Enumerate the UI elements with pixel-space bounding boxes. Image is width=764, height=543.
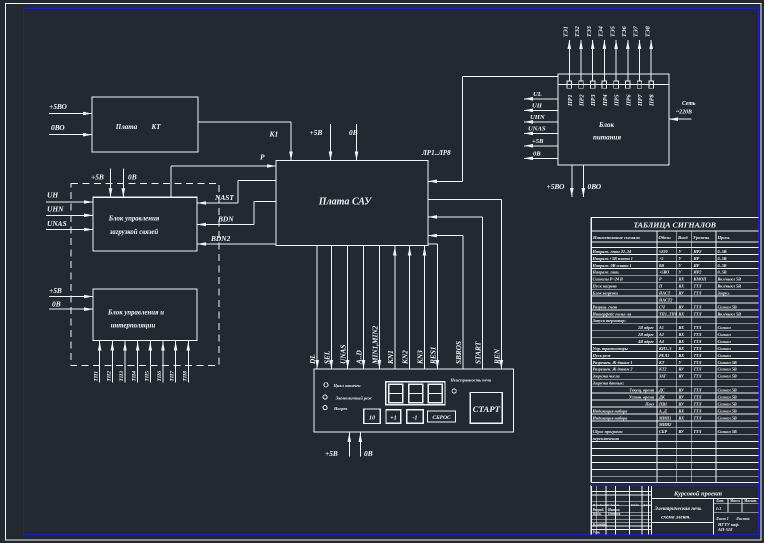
fuse ПР5 — [614, 81, 621, 107]
svg-text:Пров.: Пров. — [592, 512, 602, 516]
svg-text:Сигнал 5В: Сигнал 5В — [718, 374, 737, 379]
svg-text:MIN1,MIN2: MIN1,MIN2 — [370, 325, 379, 365]
svg-text:UNAS: UNAS — [339, 345, 348, 364]
svg-text:ТТЛ: ТТЛ — [694, 325, 702, 330]
label +5В (блок управления) — [91, 173, 104, 182]
svg-text:загрузкой связей: загрузкой связей — [109, 229, 159, 236]
svg-text:Вход: Вход — [677, 235, 688, 240]
svg-text:ТТЛ: ТТЛ — [694, 291, 702, 296]
wire BDN2 from САУ to блок управления загрузкой — [197, 242, 276, 246]
label К1 — [269, 130, 279, 139]
svg-text:0В: 0В — [52, 300, 61, 309]
label 0В (САУ) — [349, 128, 358, 137]
svg-text:СБРОС: СБРОС — [432, 415, 451, 421]
svg-text:ТТЛ: ТТЛ — [694, 284, 702, 289]
svg-text:СБР: СБР — [659, 429, 667, 434]
wire K1 from Плата КТ to Плата САУ — [198, 122, 293, 161]
svg-text:ТТЛ: ТТЛ — [694, 408, 702, 413]
svg-text:0..5В: 0..5В — [718, 270, 727, 275]
svg-text:НАСТ: НАСТ — [658, 291, 671, 296]
svg-text:Вкл/выкл 5В: Вкл/выкл 5В — [717, 311, 742, 316]
svg-text:ВХ: ВХ — [678, 284, 685, 289]
wire ТЭ8 output — [645, 26, 653, 81]
label UNAS — [47, 219, 67, 228]
svg-text:+5В: +5В — [310, 128, 323, 137]
svg-text:Листов: Листов — [735, 516, 750, 521]
svg-text:ДК: ДК — [658, 394, 666, 399]
stub UNAS (блок питания) — [524, 126, 558, 136]
label +5В (блок интерполяции) — [49, 286, 62, 295]
svg-text:ПР1: ПР1 — [568, 94, 574, 107]
fuse ПР2 — [579, 81, 586, 107]
svg-text:Индикация набора: Индикация набора — [592, 408, 628, 413]
svg-text:интерполяции: интерполяции — [111, 323, 156, 330]
label Р — [260, 153, 265, 162]
svg-text:BDN2: BDN2 — [210, 234, 231, 243]
svg-text:Р: Р — [659, 277, 662, 282]
svg-text:0ВО: 0ВО — [51, 123, 65, 132]
svg-text:ТП5: ТП5 — [144, 371, 150, 382]
svg-text:ТЭ1: ТЭ1 — [564, 26, 570, 37]
svg-text:Загрузка данных:: Загрузка данных: — [592, 381, 625, 386]
wire ТЭ3 output — [587, 26, 595, 81]
stub UH (блок питания) — [524, 103, 558, 113]
svg-text:ТТЛ: ТТЛ — [694, 360, 702, 365]
svg-text:1:1: 1:1 — [716, 506, 721, 511]
svg-text:Разраб.: Разраб. — [593, 508, 605, 512]
wire UH into блок управления — [46, 200, 93, 204]
svg-text:~220В: ~220В — [676, 110, 692, 116]
svg-text:Курсовой проект: Курсовой проект — [673, 490, 722, 497]
label +5ВО input — [49, 102, 67, 111]
svg-text:К1: К1 — [269, 130, 279, 139]
svg-text:Неисправность печи: Неисправность печи — [450, 378, 492, 383]
svg-text:SBROS: SBROS — [454, 341, 463, 364]
label 0В (блок интерполяции) — [52, 300, 61, 309]
svg-text:ВХ: ВХ — [678, 353, 685, 358]
wire 0В into блок управления top — [122, 169, 126, 198]
stub UL (блок питания) — [524, 91, 558, 101]
button -1 — [407, 410, 424, 423]
svg-text:Текущ. время: Текущ. время — [629, 388, 654, 393]
svg-text:Электрическая печь: Электрическая печь — [655, 506, 703, 512]
svg-text:ПР2: ПР2 — [580, 94, 586, 107]
svg-text:NAST: NAST — [214, 193, 234, 202]
svg-text:ТТЛ: ТТЛ — [694, 401, 702, 406]
wire 0В into Плата САУ — [355, 124, 359, 161]
svg-text:Сброс программ: Сброс программ — [593, 429, 623, 434]
svg-text:ТЭ8: ТЭ8 — [645, 26, 651, 37]
wire ТЭ5 output — [610, 26, 618, 81]
svg-text:0..5В: 0..5В — [718, 263, 727, 268]
svg-text:0В: 0В — [659, 263, 664, 268]
svg-text:ВХ: ВХ — [678, 346, 685, 351]
svg-text:КТ2: КТ2 — [658, 367, 667, 372]
wire ТП8 thermocouple input — [182, 341, 190, 383]
svg-text:ВУ: ВУ — [678, 394, 685, 399]
indicator Нагрев — [323, 406, 347, 412]
svg-text:0В: 0В — [128, 173, 137, 182]
svg-text:Напряж. сети 22..24: Напряж. сети 22..24 — [592, 249, 632, 254]
svg-text:10: 10 — [369, 415, 375, 422]
wire 0ВО into Плата КТ — [49, 133, 92, 137]
svg-text:ТП4: ТП4 — [132, 371, 138, 382]
svg-text:А4: А4 — [658, 339, 664, 344]
label +5В (САУ) — [310, 128, 323, 137]
svg-text:Обозн: Обозн — [659, 235, 672, 240]
wire DL — [308, 246, 319, 370]
svg-text:+5В: +5В — [49, 286, 62, 295]
svg-text:-1: -1 — [412, 414, 417, 421]
svg-text:Плата: Плата — [115, 123, 138, 131]
svg-text:КН1..3: КН1..3 — [658, 346, 671, 351]
svg-text:Сигналы Р=24 В: Сигналы Р=24 В — [593, 277, 623, 282]
svg-text:REN: REN — [492, 348, 501, 365]
svg-text:ТЭ7: ТЭ7 — [634, 25, 640, 37]
svg-text:П: П — [658, 284, 663, 289]
svg-text:ТТЛ: ТТЛ — [694, 394, 702, 399]
svg-text:ПР5: ПР5 — [615, 94, 621, 107]
svg-text:ИР2: ИР2 — [693, 270, 702, 275]
label UH — [47, 191, 58, 200]
label NAST — [214, 193, 234, 202]
svg-text:ВУ: ВУ — [678, 388, 685, 393]
svg-text:+5ВО: +5ВО — [49, 102, 67, 111]
svg-text:Загрузка числа: Загрузка числа — [592, 374, 620, 379]
svg-text:1Я адрес: 1Я адрес — [638, 325, 654, 330]
wire ТЭ4 output — [599, 26, 607, 81]
svg-text:схема элект.: схема элект. — [661, 515, 690, 521]
svg-text:+5ВО: +5ВО — [659, 270, 669, 275]
label 0В (пульт) — [364, 449, 373, 458]
label +5ВО — [547, 182, 565, 191]
svg-text:Иванов: Иванов — [607, 508, 620, 512]
block: Плата САУ — [276, 161, 428, 246]
svg-text:UHN: UHN — [47, 205, 64, 214]
svg-text:ВУ: ВУ — [678, 429, 685, 434]
svg-text:РЕЛ1: РЕЛ1 — [659, 353, 669, 358]
svg-text:Разрешен. Ж-динам 2: Разрешен. Ж-динам 2 — [593, 367, 633, 372]
svg-text:ПР6: ПР6 — [626, 94, 632, 107]
svg-text:Сигнал 5В: Сигнал 5В — [718, 388, 737, 393]
svg-text:СЧ: СЧ — [659, 304, 666, 309]
svg-text:UNAS: UNAS — [47, 219, 67, 228]
wire ЛР1..ЛР8 bus from блок питания to САУ — [428, 77, 558, 184]
stub UHN (блок питания) — [524, 114, 558, 124]
svg-text:Блок управления: Блок управления — [108, 216, 160, 223]
svg-text:Запуск термопар:: Запуск термопар: — [592, 318, 627, 323]
svg-text:Пауз: Пауз — [644, 401, 654, 406]
svg-text:+5В: +5В — [532, 138, 544, 145]
svg-text:ТТЛ: ТТЛ — [694, 367, 702, 372]
svg-text:Сигнал 5В: Сигнал 5В — [718, 360, 737, 365]
button 10 — [364, 409, 381, 424]
fuse ПР1 — [567, 81, 574, 107]
svg-text:Сигнал 5В: Сигнал 5В — [718, 304, 737, 309]
svg-text:Сигнал 5В: Сигнал 5В — [718, 394, 737, 399]
svg-text:4Я адрес: 4Я адрес — [637, 339, 654, 344]
button СБРОС — [428, 411, 456, 422]
svg-text:ИР: ИР — [693, 263, 700, 268]
svg-text:Дата: Дата — [642, 503, 652, 507]
wire +5В into Плата САУ — [329, 124, 333, 161]
svg-text:Сигнал 5В: Сигнал 5В — [718, 408, 737, 413]
wire NAST from САУ to блок управления загрузкой — [197, 181, 276, 205]
svg-text:питания: питания — [593, 133, 622, 141]
wire ТП7 thermocouple input — [170, 341, 178, 383]
fuse ПР4 — [602, 81, 609, 107]
svg-text:ТЭ3: ТЭ3 — [587, 26, 593, 37]
svg-text:UL: UL — [533, 91, 542, 98]
svg-text:Плата САУ: Плата САУ — [318, 197, 373, 208]
label 0ВО — [588, 182, 602, 191]
label Сеть ~220В — [676, 101, 696, 116]
wire ТП3 thermocouple input — [119, 341, 127, 383]
indicator Экономичный режим — [323, 395, 373, 401]
svg-text:ТЭ4: ТЭ4 — [599, 26, 605, 37]
svg-text:ТТЛ: ТТЛ — [694, 339, 702, 344]
svg-text:А1: А1 — [658, 325, 664, 330]
svg-text:Разрешен. Ж-динам 1: Разрешен. Ж-динам 1 — [593, 360, 633, 365]
svg-text:Сигнал 5В: Сигнал 5В — [718, 401, 737, 406]
svg-text:KN2: KN2 — [401, 350, 410, 365]
svg-text:ТАБЛИЦА СИГНАЛОВ: ТАБЛИЦА СИГНАЛОВ — [634, 221, 716, 230]
block: пульт управления — [314, 369, 514, 432]
svg-text:Масшт.: Масшт. — [743, 499, 757, 503]
svg-text:Устан. время: Устан. время — [629, 394, 655, 399]
svg-text:Интерфейс польз-ля: Интерфейс польз-ля — [592, 311, 632, 316]
label +5В (пульт) — [325, 449, 338, 458]
svg-text:Сигнал: Сигнал — [718, 332, 732, 337]
svg-text:ПР8: ПР8 — [650, 94, 656, 107]
svg-text:Напряж. пит.: Напряж. пит. — [592, 270, 620, 275]
svg-text:А2: А2 — [658, 332, 664, 337]
svg-text:ТП8: ТП8 — [182, 371, 188, 382]
wire ТЭ6 output — [622, 25, 630, 81]
svg-text:ТТЛ: ТТЛ — [694, 353, 702, 358]
svg-text:BDN: BDN — [217, 215, 234, 224]
svg-text:ВХ: ВХ — [678, 332, 685, 337]
svg-text:Сигнал: Сигнал — [718, 353, 732, 358]
wire 0ВО output of блок питания — [582, 165, 586, 197]
svg-text:Блок управления и: Блок управления и — [107, 310, 164, 317]
wire +5В into блок управления top — [109, 169, 113, 198]
svg-text:Сигнал: Сигнал — [718, 325, 732, 330]
button +1 — [386, 410, 401, 423]
wire MIN1,MIN2 — [370, 246, 381, 370]
svg-text:UHN: UHN — [530, 114, 545, 121]
svg-text:ПР3: ПР3 — [591, 94, 597, 107]
svg-text:КМОП: КМОП — [693, 277, 708, 282]
svg-text:Пуск нагрева: Пуск нагрева — [592, 284, 617, 289]
block: Блок питания — [558, 74, 669, 165]
svg-text:0ВО: 0ВО — [588, 182, 602, 191]
svg-text:UH: UH — [532, 103, 543, 110]
svg-text:ТП6: ТП6 — [157, 371, 163, 382]
svg-text:ТП2: ТП2 — [106, 371, 112, 382]
svg-text:Прим.: Прим. — [717, 235, 731, 240]
wire KN1 — [386, 246, 397, 370]
svg-text:ТТЛ: ТТЛ — [694, 332, 702, 337]
svg-text:ВХ: ВХ — [678, 415, 685, 420]
svg-text:Утв.: Утв. — [593, 531, 601, 535]
wire A..D — [355, 246, 366, 370]
wire ТЭ7 output — [634, 25, 642, 81]
svg-text:ВУ: ВУ — [678, 401, 685, 406]
block: Блок управления и интерполяции — [93, 289, 197, 341]
svg-text:СТАРТ: СТАРТ — [473, 404, 501, 414]
svg-text:ИР2: ИР2 — [693, 249, 702, 254]
svg-text:ВУ: ВУ — [678, 367, 685, 372]
svg-text:ПР4: ПР4 — [603, 94, 609, 107]
svg-text:ТТЛ: ТТЛ — [694, 311, 702, 316]
wire ТП5 thermocouple input — [144, 341, 152, 383]
svg-text:SEL: SEL — [322, 350, 331, 364]
svg-text:Упр. транзисторы: Упр. транзисторы — [593, 346, 628, 351]
wire UHN into блок управления — [46, 214, 93, 218]
wire RES1 — [428, 244, 439, 369]
wire ТЭ2 output — [575, 26, 583, 81]
svg-text:UH: UH — [47, 191, 58, 200]
svg-text:ПВ1: ПВ1 — [658, 401, 667, 406]
fuse ПР3 — [590, 81, 597, 107]
wire ТП1 thermocouple input — [94, 341, 102, 383]
svg-text:Напряж.+5В плата 1: Напряж.+5В плата 1 — [592, 256, 633, 261]
svg-text:Вкл/выкл 5В: Вкл/выкл 5В — [717, 277, 742, 282]
svg-text:Пуск реле: Пуск реле — [592, 353, 611, 358]
svg-text:Сигнал: Сигнал — [718, 346, 732, 351]
svg-text:+5В: +5В — [91, 173, 104, 182]
label 0В (блок управления) — [128, 173, 137, 182]
svg-text:ВХ: ВХ — [678, 277, 685, 282]
svg-text:0В: 0В — [533, 151, 541, 158]
svg-text:ТТЛ: ТТЛ — [694, 415, 702, 420]
svg-text:ТП1..ТП8: ТП1..ТП8 — [659, 311, 678, 316]
indicator Цикл окончен — [324, 383, 361, 388]
svg-text:ВХ: ВХ — [678, 408, 685, 413]
wire REN — [428, 200, 503, 370]
stub 0В (блок питания) — [524, 151, 558, 161]
svg-text:ТЭ6: ТЭ6 — [622, 25, 628, 37]
svg-text:ПР7: ПР7 — [638, 94, 644, 107]
svg-text:+5В: +5В — [325, 449, 338, 458]
svg-text:ТЭ2: ТЭ2 — [575, 26, 581, 37]
svg-text:Наименование сигнала: Наименование сигнала — [592, 235, 641, 240]
svg-text:ТТЛ: ТТЛ — [694, 346, 702, 351]
svg-text:ТП7: ТП7 — [170, 371, 176, 382]
wire P from Блок управления загрузкой to Плата САУ — [171, 164, 276, 197]
svg-text:ТТЛ: ТТЛ — [694, 374, 702, 379]
svg-text:Экономичный реж: Экономичный реж — [336, 396, 373, 401]
wire KN2 — [401, 246, 412, 370]
svg-text:ВУ: ВУ — [678, 304, 685, 309]
svg-text:ВУ: ВУ — [678, 374, 685, 379]
svg-text:АП-518: АП-518 — [717, 527, 733, 532]
fuse ПР8 — [649, 81, 656, 107]
svg-text:0В: 0В — [364, 449, 373, 458]
svg-text:Напряж. 0В плата 1: Напряж. 0В плата 1 — [592, 263, 632, 268]
wire START — [428, 215, 483, 369]
title block (штамп) — [591, 485, 758, 535]
wire KN3 — [416, 246, 427, 370]
signal table: ТАБЛИЦА СИГНАЛОВ — [591, 217, 758, 482]
wire +5В into блок интерполяции — [49, 295, 93, 299]
wire 0В into блок интерполяции — [49, 307, 93, 311]
label 0ВО input — [51, 123, 65, 132]
svg-text:ТТЛ: ТТЛ — [694, 429, 702, 434]
wire SBROS — [428, 234, 463, 369]
label BDN — [217, 215, 234, 224]
svg-text:ТП1: ТП1 — [94, 371, 100, 382]
svg-text:ТТЛ: ТТЛ — [694, 388, 702, 393]
svg-text:ТТЛ: ТТЛ — [694, 304, 702, 309]
svg-text:ЗАГ: ЗАГ — [658, 374, 667, 379]
stub +5В (блок питания) — [524, 138, 558, 148]
svg-text:0..5В: 0..5В — [718, 249, 727, 254]
svg-text:DL: DL — [308, 354, 317, 365]
svg-text:2Я адрес: 2Я адрес — [637, 332, 654, 337]
svg-text:Лит.: Лит. — [715, 499, 724, 503]
label Неисправность печи — [450, 378, 492, 383]
dashed enclosure around control blocks — [71, 183, 219, 365]
svg-text:Цикл окончен: Цикл окончен — [333, 383, 362, 388]
svg-text:RES1: RES1 — [428, 347, 437, 365]
svg-text:КТ: КТ — [658, 360, 665, 365]
wire ТП4 thermocouple input — [132, 341, 140, 383]
svg-text:Сигнал: Сигнал — [718, 339, 732, 344]
wire +5ВО into Плата КТ — [49, 112, 92, 116]
svg-text:Р: Р — [260, 153, 265, 162]
svg-text:Индикация набора: Индикация набора — [592, 415, 628, 420]
seven-segment display — [386, 382, 445, 405]
wire UNAS into блок управления — [46, 228, 93, 232]
svg-text:Подп: Подп — [630, 503, 639, 507]
label UHN — [47, 205, 64, 214]
wire ТП6 thermocouple input — [157, 341, 165, 383]
svg-text:переключения: переключения — [593, 436, 620, 441]
svg-text:ВХ: ВХ — [678, 311, 685, 316]
svg-text:Сигнал 5В: Сигнал 5В — [718, 367, 737, 372]
wire BDN from САУ to блок управления загрузкой — [197, 202, 276, 227]
label BDN2 — [210, 234, 231, 243]
svg-text:Блок: Блок — [598, 121, 615, 129]
svg-text:+5: +5 — [659, 256, 663, 261]
button СТАРТ — [470, 393, 502, 424]
svg-text:ДС: ДС — [658, 388, 665, 393]
svg-text:ИР: ИР — [693, 256, 700, 261]
svg-text:ТЭ5: ТЭ5 — [610, 26, 616, 37]
wire ТП2 thermocouple input — [106, 341, 114, 383]
svg-text:N докум.: N докум. — [606, 503, 620, 507]
svg-text:НАСТ2: НАСТ2 — [658, 297, 672, 302]
wire +5ВО output of блок питания — [570, 165, 574, 197]
svg-text:ТП3: ТП3 — [119, 371, 125, 382]
wire 0В into пульт — [359, 432, 363, 457]
svg-text:Лист 1: Лист 1 — [715, 516, 729, 521]
svg-text:KN1: KN1 — [386, 350, 395, 365]
svg-text:ВУ: ВУ — [678, 291, 685, 296]
svg-text:Загруз.: Загруз. — [717, 291, 730, 296]
svg-text:UNAS: UNAS — [528, 126, 546, 133]
svg-text:Сигнал 5В: Сигнал 5В — [718, 415, 737, 420]
svg-text:≈220: ≈220 — [659, 249, 668, 254]
svg-text:КТ: КТ — [150, 123, 161, 131]
svg-text:Вкл/выкл 5В: Вкл/выкл 5В — [717, 284, 742, 289]
svg-text:Нагрев: Нагрев — [333, 406, 347, 411]
svg-text:Н.контр.: Н.контр. — [592, 523, 608, 527]
wire Сеть into блок питания — [669, 117, 692, 121]
svg-text:ВХ: ВХ — [678, 325, 685, 330]
